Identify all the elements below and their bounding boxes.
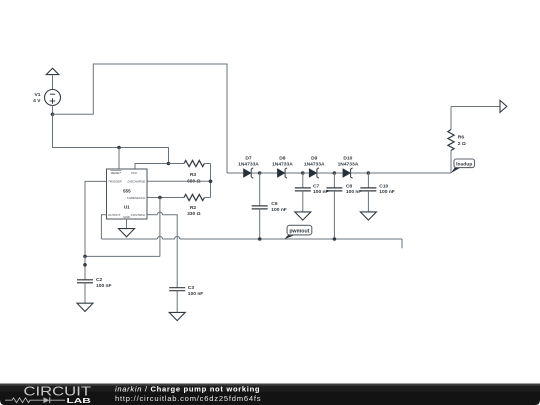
capacitor C8 <box>326 173 361 239</box>
diode D8 <box>272 156 303 179</box>
resistor R2 <box>184 194 211 217</box>
svg-text:C8: C8 <box>346 183 353 189</box>
diode D9 <box>304 156 335 179</box>
junction above C2 <box>83 263 87 267</box>
svg-text:330 Ω: 330 Ω <box>187 211 201 217</box>
svg-text:loadup: loadup <box>456 161 472 167</box>
svg-text:V1: V1 <box>35 92 41 98</box>
svg-text:100 nF: 100 nF <box>188 291 204 297</box>
svg-text:U1: U1 <box>124 205 130 210</box>
junction C6 bottom <box>258 237 262 241</box>
svg-text:100 nF: 100 nF <box>313 189 329 195</box>
wire R3 to R2 <box>210 164 212 198</box>
wire V1 down to 555 supply <box>53 114 169 163</box>
svg-text:D8: D8 <box>279 156 286 162</box>
svg-text:100 nF: 100 nF <box>96 283 112 289</box>
wire RESET stub <box>118 148 120 170</box>
svg-text:R3: R3 <box>190 172 197 178</box>
logo schematic doodle <box>5 397 65 403</box>
output arrow flag <box>500 100 507 112</box>
resistor R3 <box>169 160 211 184</box>
junction C8 bottom <box>333 237 337 241</box>
svg-text:inarkin / Charge pump not work: inarkin / Charge pump not working <box>115 385 260 394</box>
wire D9 to D10 <box>334 172 343 174</box>
flag pwmout <box>284 225 312 239</box>
resistor R6 <box>448 107 466 174</box>
junction C7 tap <box>301 171 305 175</box>
junction at RESET drop <box>117 146 121 150</box>
junction discharge/R3R2 <box>209 180 213 184</box>
svg-text:C6: C6 <box>271 201 278 207</box>
wire VCC stub <box>135 164 169 170</box>
svg-text:1N4733A: 1N4733A <box>304 161 325 167</box>
footer title line <box>115 385 260 394</box>
diode chain wire <box>227 172 244 174</box>
ground under C2 <box>77 303 93 311</box>
junction C8 tap <box>333 171 337 175</box>
ground under C10 <box>360 212 376 220</box>
ground under C7 <box>295 212 311 220</box>
wire THRESHOLD <box>147 197 184 199</box>
svg-text:1N4733A: 1N4733A <box>338 161 359 167</box>
op-amp U1 555 timer <box>107 169 148 219</box>
wire R6 to output arrow <box>451 106 500 108</box>
wire D7 to D8 <box>260 172 278 174</box>
svg-text:C2: C2 <box>96 277 103 283</box>
svg-text:C3: C3 <box>188 285 195 291</box>
svg-text:LAB: LAB <box>67 396 91 405</box>
footer bar <box>0 384 540 405</box>
footer url line <box>115 394 261 403</box>
diode D7 <box>238 156 260 179</box>
svg-text:1N4733A: 1N4733A <box>272 161 293 167</box>
voltage source V1 <box>33 68 60 114</box>
svg-text:100 nF: 100 nF <box>271 207 287 213</box>
wire D8 to D9 <box>303 172 310 174</box>
wire V1 to top rail <box>53 64 228 173</box>
wire GND stub <box>126 219 128 228</box>
svg-text:CONTROL: CONTROL <box>131 213 146 217</box>
svg-text:http://circuitlab.com/c6dz25fd: http://circuitlab.com/c6dz25fdm64fs <box>115 394 261 403</box>
flag loadup <box>451 159 475 173</box>
svg-text:C7: C7 <box>313 183 320 189</box>
svg-text:RESET: RESET <box>111 171 122 175</box>
svg-text:100 nF: 100 nF <box>346 189 362 195</box>
svg-text:R2: R2 <box>190 205 197 211</box>
ground under 555 <box>119 229 135 237</box>
svg-text:4 V: 4 V <box>33 98 41 104</box>
svg-text:100 nF: 100 nF <box>379 189 395 195</box>
node junction at V1 output <box>51 113 55 117</box>
junction C6 tap <box>258 171 262 175</box>
svg-text:1N4733A: 1N4733A <box>238 161 259 167</box>
junction C10 tap <box>367 171 371 175</box>
svg-text:pwmout: pwmout <box>289 229 309 235</box>
svg-text:D7: D7 <box>245 156 252 162</box>
wire DISCHARGE <box>147 180 211 182</box>
capacitor C2 <box>77 277 112 303</box>
wire output rail <box>101 236 402 248</box>
svg-text:VCC: VCC <box>131 171 138 175</box>
capacitor C10 <box>360 173 394 212</box>
svg-text:D9: D9 <box>311 156 318 162</box>
wire TRIGGER <box>85 181 107 256</box>
capacitor C6 <box>252 173 287 239</box>
svg-text:TRIGGER: TRIGGER <box>108 180 123 184</box>
junction trigger link <box>83 255 87 259</box>
wire CONTROL <box>147 212 177 287</box>
svg-text:DISCHARGE: DISCHARGE <box>127 180 146 184</box>
wire trigger to C2 <box>84 256 86 279</box>
svg-text:C10: C10 <box>379 183 388 189</box>
junction at R3 input <box>167 162 171 166</box>
junction threshold <box>158 196 162 200</box>
wire D10 to R6 <box>368 172 451 174</box>
svg-text:OUTPUT: OUTPUT <box>108 213 122 217</box>
svg-text:D10: D10 <box>343 156 352 162</box>
svg-text:2 Ω: 2 Ω <box>458 141 466 147</box>
logo lab text <box>67 396 91 405</box>
capacitor C7 <box>295 173 329 212</box>
svg-text:555: 555 <box>123 188 131 193</box>
diode D10 <box>338 156 369 179</box>
logo circuit text <box>24 384 92 399</box>
wire OUTPUT <box>101 215 106 239</box>
wire threshold to trigger link <box>85 198 160 257</box>
svg-text:THRESHOLD: THRESHOLD <box>127 196 146 200</box>
ground under C3 <box>169 312 185 320</box>
svg-text:R6: R6 <box>458 135 465 141</box>
svg-text:GND: GND <box>123 215 131 219</box>
capacitor C3 <box>169 285 203 312</box>
